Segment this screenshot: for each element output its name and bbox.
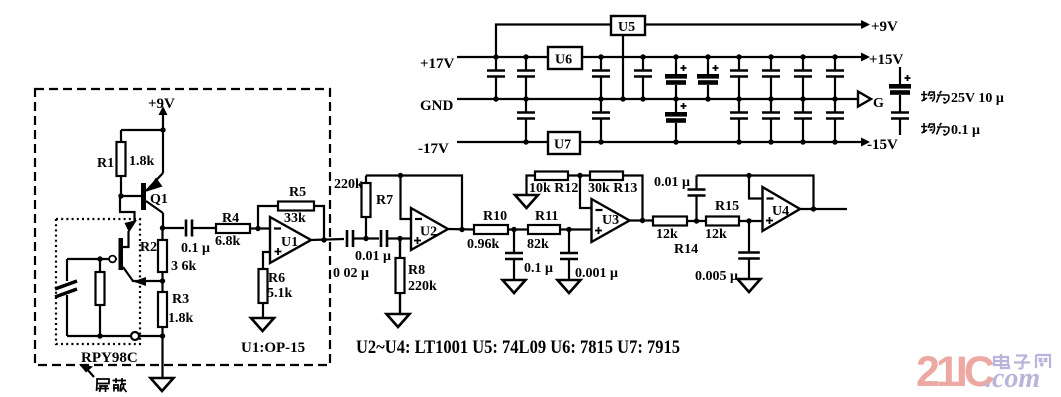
photo-FET gate lead with terminal circle xyxy=(67,256,117,263)
svg-text:U4: U4 xyxy=(772,204,789,219)
resistor R2 xyxy=(158,225,167,283)
svg-text:U3: U3 xyxy=(602,213,619,228)
wire U5 ground lead xyxy=(622,35,624,99)
wire U2 output xyxy=(448,227,474,232)
wire U4 output xyxy=(800,206,847,211)
svg-text:R11: R11 xyxy=(535,209,558,224)
svg-text:Q1: Q1 xyxy=(150,192,168,207)
svg-text:0.01 μ: 0.01 μ xyxy=(355,249,391,264)
svg-text:R1: R1 xyxy=(97,156,114,171)
svg-text:0 02 μ: 0 02 μ xyxy=(333,266,369,281)
op-amp U1 xyxy=(270,217,311,263)
wire R5 feedback loop xyxy=(258,206,324,240)
svg-text:82k: 82k xyxy=(527,237,549,252)
capacitor C (739, GND to -15V) xyxy=(730,99,748,145)
wire bottom of photo device with terminal circle xyxy=(67,332,162,340)
capacitor C (803, +15V to GND) xyxy=(794,54,812,101)
capacitor 0.1u coupling xyxy=(163,220,217,237)
resistor R3 xyxy=(158,281,167,339)
capacitor 0.01u xyxy=(381,230,411,247)
shield arrow pointer xyxy=(79,364,94,377)
resistor R6 xyxy=(259,269,268,318)
svg-text:R4: R4 xyxy=(222,211,239,226)
svg-text:R6: R6 xyxy=(268,271,285,286)
svg-text:5.1k: 5.1k xyxy=(267,286,293,301)
capacitor C (496, +17V to GND) xyxy=(487,54,505,101)
capacitor C (739, +15V to GND) xyxy=(730,54,748,101)
capacitor legend electrolytic 25V 10u xyxy=(889,67,911,112)
svg-text:GND: GND xyxy=(420,98,454,114)
resistor R5 xyxy=(278,202,314,211)
node G ground output xyxy=(858,92,884,112)
svg-text:220k: 220k xyxy=(408,279,437,294)
wire GND rail xyxy=(457,98,858,100)
regulator U5 xyxy=(611,16,645,35)
capacitor C (771, +15V to GND) xyxy=(762,54,780,101)
wire R12/R13 node to U3 inverting input xyxy=(580,176,592,209)
svg-text:220k: 220k xyxy=(334,177,363,192)
svg-text:RPY98C: RPY98C xyxy=(81,350,138,366)
capacitor C (601, +15V to GND) xyxy=(592,54,610,101)
capacitor C (835, +15V to GND) xyxy=(826,54,844,101)
svg-text:U2: U2 xyxy=(420,225,437,240)
svg-text:.com: .com xyxy=(985,363,1040,394)
capacitor C (771, GND to -15V) xyxy=(762,99,780,145)
svg-text:33k: 33k xyxy=(284,211,306,226)
label legend 25V 10u xyxy=(921,91,1004,106)
ground under R6 xyxy=(251,318,274,331)
svg-text:G: G xyxy=(873,96,884,111)
svg-text:R2: R2 xyxy=(140,240,157,255)
capacitor legend 0.1u xyxy=(891,113,909,136)
svg-text:R7: R7 xyxy=(376,193,393,208)
svg-text:R14: R14 xyxy=(674,242,698,257)
photo-FET drain lead xyxy=(120,196,137,247)
svg-text:0.1 μ: 0.1 μ xyxy=(524,261,553,276)
svg-text:0.1 μ: 0.1 μ xyxy=(181,241,210,256)
capacitor 0.005u shunt xyxy=(738,218,761,292)
label legend 0.1u xyxy=(921,123,980,138)
capacitor electrolytic (676, GND to -15V) xyxy=(665,99,687,145)
svg-text:+15V: +15V xyxy=(869,52,904,68)
capacitor electrolytic (708, +15V to GND) xyxy=(697,54,719,101)
capacitor C (835, GND to -15V) xyxy=(826,99,844,145)
resistor R12 xyxy=(535,172,590,181)
op-amp U2 xyxy=(411,208,448,250)
resistor R13 xyxy=(590,172,643,221)
resistor R4 xyxy=(216,224,270,233)
wire U1 output xyxy=(311,237,344,242)
RPY98C inner dotted box xyxy=(56,219,140,344)
svg-text:+17V: +17V xyxy=(420,56,455,72)
svg-text:21IC: 21IC xyxy=(916,348,994,396)
resistor internal (gate bias) xyxy=(96,256,105,338)
svg-text:12k: 12k xyxy=(705,227,727,242)
resistor R15 xyxy=(706,217,763,226)
svg-text:0.01 μ: 0.01 μ xyxy=(654,175,690,190)
watermark dianziwang xyxy=(994,354,1050,369)
ground main xyxy=(151,336,174,391)
svg-text:R5: R5 xyxy=(289,185,306,200)
svg-text:U1: U1 xyxy=(281,235,298,250)
node +15V output arrow xyxy=(861,52,904,68)
svg-text:+9V: +9V xyxy=(871,19,898,35)
wire U3 output xyxy=(630,218,654,223)
ground R12 left xyxy=(515,176,538,209)
svg-text:U1:OP-15: U1:OP-15 xyxy=(241,340,305,356)
transistor Q1 xyxy=(141,173,163,228)
capacitor C (526, GND to -17V) xyxy=(517,96,535,144)
resistor R8 xyxy=(396,236,405,314)
wire R1 to Q1 base xyxy=(118,193,141,198)
ground under R8 xyxy=(387,314,410,327)
svg-text:3 6k: 3 6k xyxy=(171,259,197,274)
wire U1 + input to R6 xyxy=(263,252,270,269)
resistor R1 xyxy=(117,130,126,196)
wire +9V rail xyxy=(645,23,861,25)
capacitor 0.02u xyxy=(347,230,379,247)
svg-text:6.8k: 6.8k xyxy=(215,234,241,249)
wire U2 feedback loop xyxy=(366,176,462,230)
svg-text:-17V: -17V xyxy=(418,141,449,157)
svg-text:U5: U5 xyxy=(618,20,635,35)
svg-text:0.001 μ: 0.001 μ xyxy=(575,266,618,281)
svg-text:-15V: -15V xyxy=(867,137,898,153)
svg-text:0.96k: 0.96k xyxy=(467,237,500,252)
wire -17V / -15V rail xyxy=(457,141,861,143)
wire U4 feedback loop xyxy=(697,176,814,210)
capacitor C (526, +17V to GND) xyxy=(517,54,535,99)
label 屏蔽 (hand drawn) xyxy=(97,378,127,392)
svg-text:12k: 12k xyxy=(656,227,678,242)
svg-text:R10: R10 xyxy=(483,209,507,224)
svg-text:30k R13: 30k R13 xyxy=(588,181,637,196)
op-amp U4 xyxy=(763,187,801,231)
resistor R7 xyxy=(362,176,371,242)
wire +17V / +15V rail xyxy=(457,56,861,58)
svg-text:R3: R3 xyxy=(172,292,189,307)
capacitor C (601, GND to -15V) xyxy=(592,99,610,145)
svg-text:U7: U7 xyxy=(554,138,571,153)
svg-text:1.8k: 1.8k xyxy=(168,311,194,326)
shield outer dashed box xyxy=(35,89,330,365)
op-amp U3 xyxy=(592,199,630,242)
svg-text:1.8k: 1.8k xyxy=(129,154,155,169)
svg-text:10k R12: 10k R12 xyxy=(529,181,578,196)
svg-text:0.1 μ: 0.1 μ xyxy=(951,123,980,138)
svg-text:0.005 μ: 0.005 μ xyxy=(695,269,738,284)
capacitor C (803, GND to -15V) xyxy=(794,99,812,145)
regulator U7 xyxy=(548,132,580,154)
svg-text:U2~U4: LT1001 U5: 74L09 U6:: U2~U4: LT1001 U5: 74L09 U6: 7815 U7: 791… xyxy=(356,337,680,358)
wire U5 input from +17V xyxy=(496,25,611,58)
photosensitive element xyxy=(55,259,77,336)
capacitor C (643, +15V to GND) xyxy=(634,54,652,101)
regulator U6 xyxy=(548,47,582,69)
svg-text:R15: R15 xyxy=(715,199,739,214)
svg-text:R8: R8 xyxy=(408,263,425,278)
svg-text:U6: U6 xyxy=(555,53,572,68)
capacitor 0.1u shunt xyxy=(503,227,526,293)
photo-FET source lead with arrow xyxy=(123,267,162,286)
node -15V output arrow xyxy=(861,137,898,153)
resistor R14 xyxy=(653,217,706,226)
capacitor 0.01u feedback xyxy=(688,176,706,224)
svg-text:25V 10 μ: 25V 10 μ xyxy=(951,91,1004,106)
node +9V output arrow xyxy=(861,19,898,35)
resistor R10 xyxy=(474,225,528,234)
capacitor 0.001u shunt xyxy=(558,227,581,293)
photo-FET channel bar xyxy=(119,238,124,270)
capacitor electrolytic (676, +15V to GND) xyxy=(665,54,687,101)
node +9V supply xyxy=(148,96,175,130)
wire +9V to R1 and Q1 xyxy=(121,130,163,173)
resistor R11 xyxy=(528,225,591,234)
